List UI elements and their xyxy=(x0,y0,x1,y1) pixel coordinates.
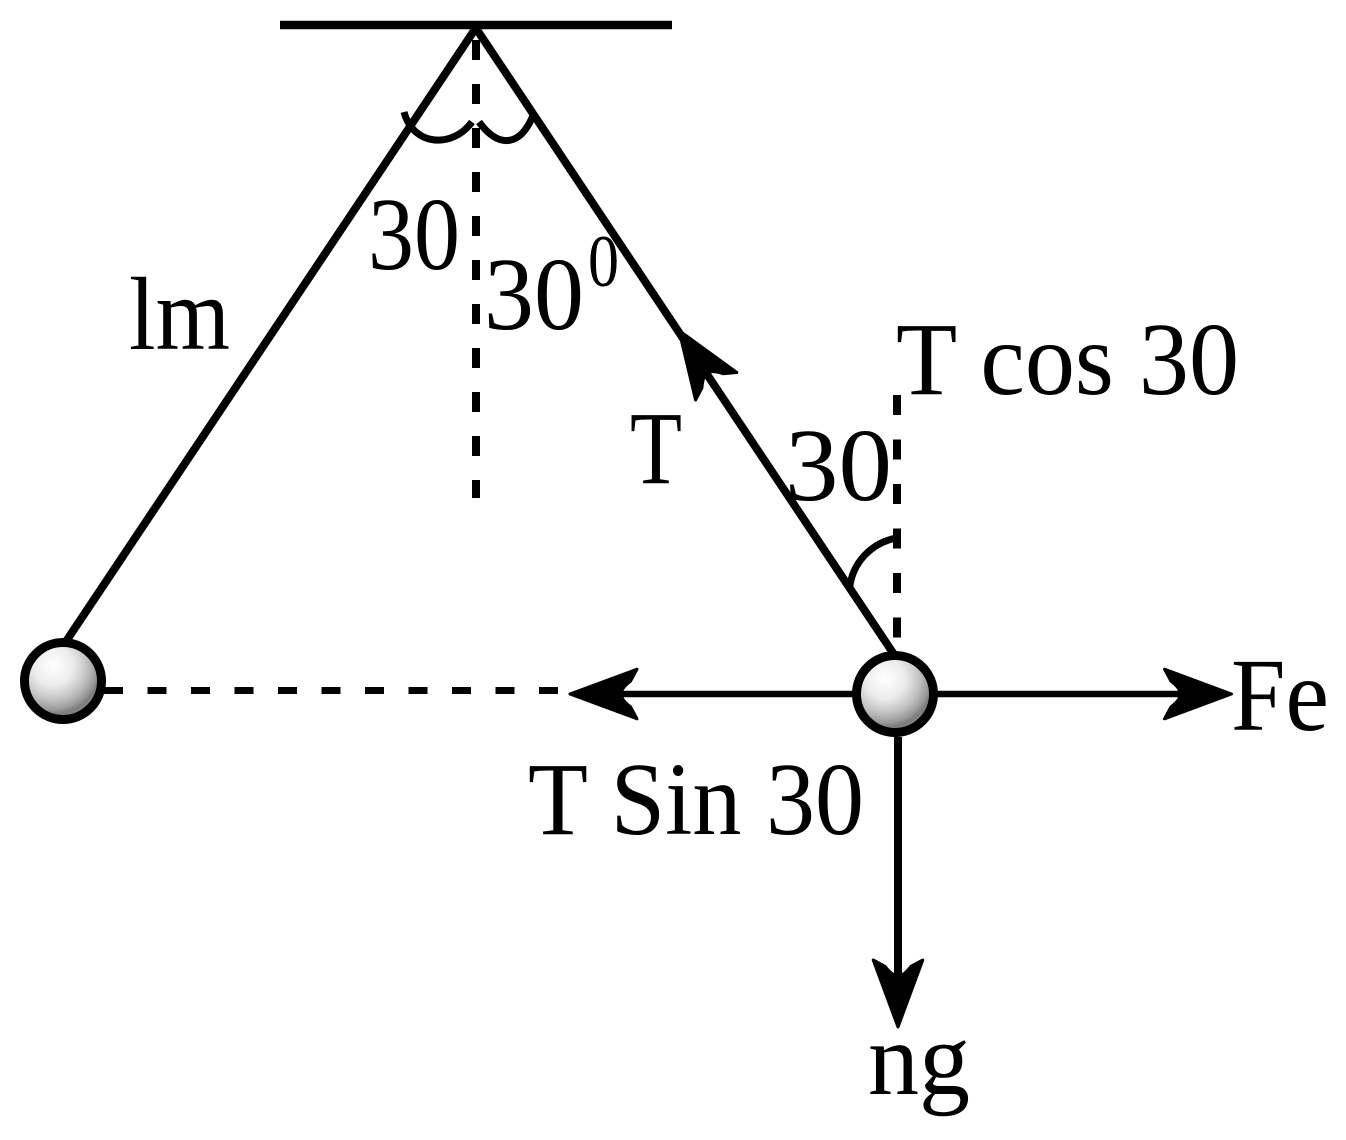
angle arc at ball between string and vertical xyxy=(850,538,897,588)
svg-text:30: 30 xyxy=(785,408,892,523)
wire string right (T direction) xyxy=(476,28,901,665)
svg-text:30: 30 xyxy=(368,177,460,292)
angle arc left at pivot xyxy=(404,112,472,140)
ng arrow shaft xyxy=(894,737,902,983)
svg-text:30: 30 xyxy=(484,237,584,352)
svg-text:T Sin 30: T Sin 30 xyxy=(528,742,864,857)
svg-text:T: T xyxy=(630,391,682,506)
vertical dashed centerline from pivot xyxy=(472,40,480,498)
left pendulum bob xyxy=(25,643,102,720)
svg-text:ng: ng xyxy=(868,1002,970,1117)
ng arrowhead xyxy=(873,960,923,1027)
svg-text:0: 0 xyxy=(588,221,619,303)
Fe arrowhead xyxy=(1165,669,1232,719)
svg-text:T cos 30: T cos 30 xyxy=(896,302,1239,417)
T Sin 30 arrow shaft xyxy=(614,691,856,698)
ceiling xyxy=(280,21,672,30)
svg-text:Fe: Fe xyxy=(1231,638,1329,753)
right pendulum bob xyxy=(857,656,934,733)
tension arrowhead T on right string xyxy=(658,317,736,400)
wire string left (lm) xyxy=(59,28,476,652)
horizontal dashed line from left ball xyxy=(104,687,562,694)
Fe arrow shaft xyxy=(937,691,1187,698)
angle arc right at pivot xyxy=(479,113,534,141)
T Sin 30 arrowhead xyxy=(570,669,637,719)
svg-text:lm: lm xyxy=(129,257,230,372)
vertical dashed line T cos 30 above ball xyxy=(893,395,901,655)
